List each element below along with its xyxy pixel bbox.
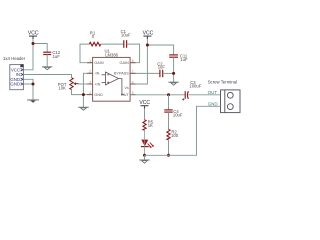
wire header IN pin to POT top — [23, 75, 71, 78]
header corner mark — [20, 64, 23, 67]
svg-text:10uF: 10uF — [173, 113, 183, 118]
capacitor C2 — [160, 70, 163, 78]
svg-text:VCC: VCC — [28, 30, 39, 36]
wire VCC to junction — [146, 39, 148, 45]
ground (under header) — [27, 100, 39, 103]
resistor R5 — [143, 120, 146, 131]
wire header GND pin 3 — [23, 79, 33, 99]
VCC supply symbol (LED branch) — [141, 106, 149, 109]
junction dot R2/GND rail — [167, 154, 170, 157]
svg-text:-IN: -IN — [94, 72, 99, 76]
wire C12 to ground — [46, 55, 48, 67]
resistor R2 — [167, 129, 170, 140]
wire POT bottom to GND junction — [72, 90, 84, 95]
wire C3 to screw terminal OUT — [188, 94, 220, 96]
wire POT wiper to U1 +IN — [79, 83, 93, 85]
wire header GND pin 4 — [23, 83, 33, 85]
svg-text:BYPASS: BYPASS — [114, 72, 129, 76]
svg-text:1uF: 1uF — [180, 57, 188, 62]
ground (under LED) — [139, 160, 149, 163]
wire C2 to junction — [163, 72, 174, 74]
svg-text:3: 3 — [89, 80, 91, 84]
junction dot OUT/C4 — [167, 93, 170, 96]
ground (under C12) — [42, 67, 52, 70]
U1 pin stubs right — [130, 63, 136, 95]
svg-text:100uF: 100uF — [189, 83, 201, 88]
wire VCC symbol to junction — [32, 39, 34, 43]
wire R5 through LED to GND rail — [144, 130, 146, 155]
VCC supply symbol (middle) — [143, 36, 151, 39]
wire R1 to C1 — [101, 43, 124, 45]
screw terminal block — [221, 90, 241, 113]
junction dot header GND — [32, 83, 35, 86]
wire U1 pin1 GAIN up to R1 — [80, 44, 93, 63]
svg-text:Vs: Vs — [124, 86, 129, 90]
ground (under POT) — [78, 107, 89, 110]
wire screw terminal GND to ground rail — [145, 106, 221, 155]
wire U1 -IN down to GND junction — [83, 73, 92, 94]
capacitor C12 — [43, 52, 51, 54]
wire U1 OUT pin5 to C3 — [130, 94, 185, 96]
wire C11 down to junction — [173, 57, 175, 73]
header pin chevrons — [21, 69, 23, 86]
wire GND junction down to ground — [82, 95, 84, 108]
wire OUT junction down to C4 — [168, 95, 170, 110]
svg-text:2: 2 — [89, 70, 91, 74]
svg-text:GAIN: GAIN — [120, 61, 130, 65]
svg-text:1uF: 1uF — [53, 54, 61, 59]
connector 1x4 header body — [10, 65, 24, 90]
ground (under C11/C2) — [168, 82, 178, 85]
wire VCC junction right to C11 — [147, 45, 173, 55]
svg-text:6: 6 — [132, 80, 134, 84]
svg-text:1x4 Header: 1x4 Header — [3, 56, 26, 61]
capacitor C3 polarized — [185, 91, 188, 99]
svg-text:1uF: 1uF — [158, 65, 166, 70]
svg-text:VCC: VCC — [143, 30, 154, 36]
wire junction to C12 — [33, 44, 47, 53]
wire C1 to U1 pin8 GAIN — [127, 44, 140, 63]
svg-text:7: 7 — [132, 70, 134, 74]
LED1 — [141, 140, 154, 148]
svg-text:Screw Terminal: Screw Terminal — [208, 80, 237, 85]
wire VCC junction down to U1 Vs pin6 — [130, 45, 147, 84]
wire U1 BYPASS pin7 to C2 — [130, 72, 160, 74]
wire junction down to header VCC pin — [23, 44, 33, 70]
op-amp U1 LM386 body — [93, 57, 131, 101]
wire C4 to R2 — [168, 112, 170, 129]
U1 pin stubs left — [87, 63, 93, 95]
junction dot POT/GND — [82, 93, 85, 96]
wire GND junction to U1 GND pin — [83, 94, 92, 96]
wire LED junction down to ground — [144, 155, 146, 160]
svg-text:GND: GND — [10, 82, 20, 87]
svg-text:10K: 10K — [58, 85, 66, 90]
potentiometer POT 10K — [70, 78, 79, 90]
wire junction down to ground — [173, 73, 175, 82]
junction dot C2/C11 — [172, 72, 175, 75]
wire R2 down to GND rail — [168, 140, 170, 156]
svg-text:LM386: LM386 — [105, 53, 118, 58]
svg-text:VCC: VCC — [139, 100, 150, 106]
junction dot VCC middle — [146, 44, 149, 47]
op-amp triangle inside U1 — [102, 72, 125, 95]
svg-text:GAIN: GAIN — [94, 61, 104, 65]
svg-text:GND: GND — [94, 93, 103, 97]
svg-text:10uF: 10uF — [121, 33, 131, 38]
svg-text:OUT: OUT — [208, 90, 218, 95]
junction dot VCC left — [32, 42, 35, 45]
capacitor C1 — [124, 40, 127, 48]
svg-text:1K: 1K — [148, 123, 153, 128]
capacitor C4 — [164, 110, 172, 112]
junction dot LED/GND rail — [143, 154, 146, 157]
C3 plus mark — [182, 98, 184, 100]
svg-text:4: 4 — [89, 91, 91, 95]
svg-text:GND: GND — [208, 101, 219, 106]
svg-text:8: 8 — [132, 59, 134, 63]
svg-text:5: 5 — [132, 91, 134, 95]
wire VCC to R5 — [144, 109, 146, 120]
svg-text:OUT: OUT — [121, 93, 130, 97]
resistor R1 — [89, 42, 100, 46]
svg-text:+IN: +IN — [94, 82, 100, 86]
svg-text:100: 100 — [171, 133, 179, 138]
capacitor C11 — [169, 55, 178, 57]
VCC supply symbol (left) — [29, 36, 37, 39]
svg-text:1: 1 — [89, 59, 91, 63]
